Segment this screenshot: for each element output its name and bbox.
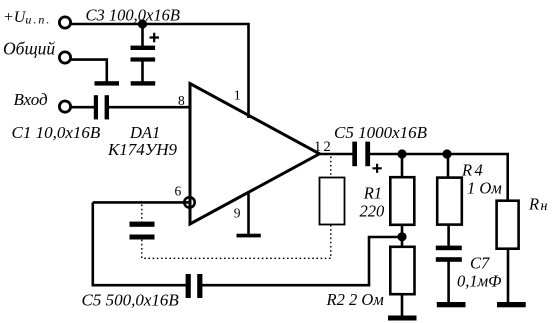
svg-text:C5 500,0x16В: C5 500,0x16В [82,291,180,310]
svg-text:C1 10,0x16В: C1 10,0x16В [12,123,101,142]
svg-text:9: 9 [234,205,241,220]
svg-text:220: 220 [360,202,386,221]
svg-text:R2 2 Ом: R2 2 Ом [326,290,385,309]
svg-text:Вход: Вход [14,90,49,109]
svg-text:C7: C7 [470,254,490,273]
svg-text:R4: R4 [461,161,485,180]
svg-text:1 Ом: 1 Ом [467,179,502,198]
svg-text:К174УН9: К174УН9 [107,140,178,159]
svg-text:1: 1 [234,88,241,103]
svg-text:C5 1000x16В: C5 1000x16В [334,123,428,142]
svg-text:12: 12 [314,139,333,155]
svg-text:6: 6 [175,183,182,198]
svg-text:8: 8 [178,93,185,108]
svg-text:Общий: Общий [3,39,55,59]
svg-text:R1: R1 [363,183,382,202]
svg-text:C3 100,0x16В: C3 100,0x16В [86,5,180,24]
svg-text:0,1мФ: 0,1мФ [457,272,501,291]
